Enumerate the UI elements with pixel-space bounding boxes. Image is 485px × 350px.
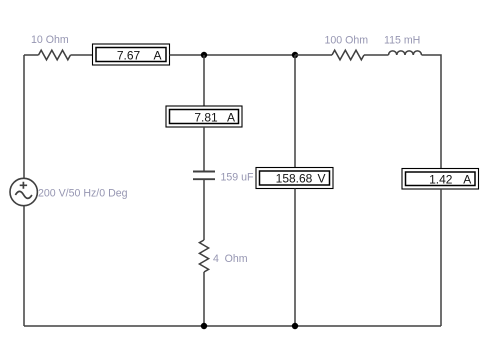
node B junction dot [292,52,298,58]
voltmeter U3 box 158.68 V [256,168,333,189]
wire U2 to capacitor C1 [203,127,205,171]
AC source V1 sine wave [15,191,32,198]
wire R3 down to bottom node [203,272,205,326]
wire left vertical top [23,55,25,179]
svg-text:Ohm: Ohm [225,253,248,265]
wire left vertical bottom [23,206,25,326]
svg-text:A: A [227,111,235,125]
svg-text:200 V/50 Hz/0 Deg: 200 V/50 Hz/0 Deg [38,187,128,199]
wire bottom rail [24,325,441,327]
svg-text:A: A [463,172,471,186]
svg-text:4: 4 [213,253,219,265]
resistor R1 zigzag [39,50,71,60]
resistor R3 vertical zigzag 4 Ohm [199,240,208,272]
resistor R3 value label 4 Ohm [213,253,248,265]
ammeter U1 box [93,44,170,65]
wire node A down to ammeter U2 [203,55,205,106]
svg-text:100 Ohm: 100 Ohm [325,35,369,47]
wire top-left stub [24,54,39,56]
wire R1 to ammeter U1 [71,54,93,56]
wire L1 to right corner down to ammeter U4 [422,55,442,169]
wire node B down to voltmeter U3 [294,55,296,168]
wire U3 down to bottom node [294,189,296,327]
node A junction dot [201,52,207,58]
svg-text:7.81: 7.81 [194,111,218,125]
wire C1 to resistor R3 [203,180,205,240]
svg-text:1.42: 1.42 [429,172,453,186]
svg-text:159 uF: 159 uF [221,172,255,184]
AC source V1 circle [10,178,37,205]
svg-text:V: V [317,172,325,186]
ammeter U4 box 1.42 A [402,169,479,190]
capacitor C1 plates [193,172,215,180]
wire node B to resistor R2 [295,54,332,56]
wire U1 to node B [170,54,296,56]
inductor L1 [389,51,422,55]
bottom node A junction dot [201,323,207,329]
svg-text:10 Ohm: 10 Ohm [31,34,69,46]
svg-text:7.67: 7.67 [117,48,141,62]
resistor R2 zigzag 100 Ohm [332,50,364,60]
bottom node B junction dot [292,323,298,329]
wire U4 down to bottom right corner [440,189,442,326]
svg-text:115 mH: 115 mH [384,35,420,47]
AC source V1 plus sign [20,182,27,189]
wire R2 to inductor L1 [364,54,389,56]
svg-text:158.68: 158.68 [276,172,313,186]
svg-text:A: A [153,48,161,62]
ammeter U2 box 7.81 A [166,106,242,127]
